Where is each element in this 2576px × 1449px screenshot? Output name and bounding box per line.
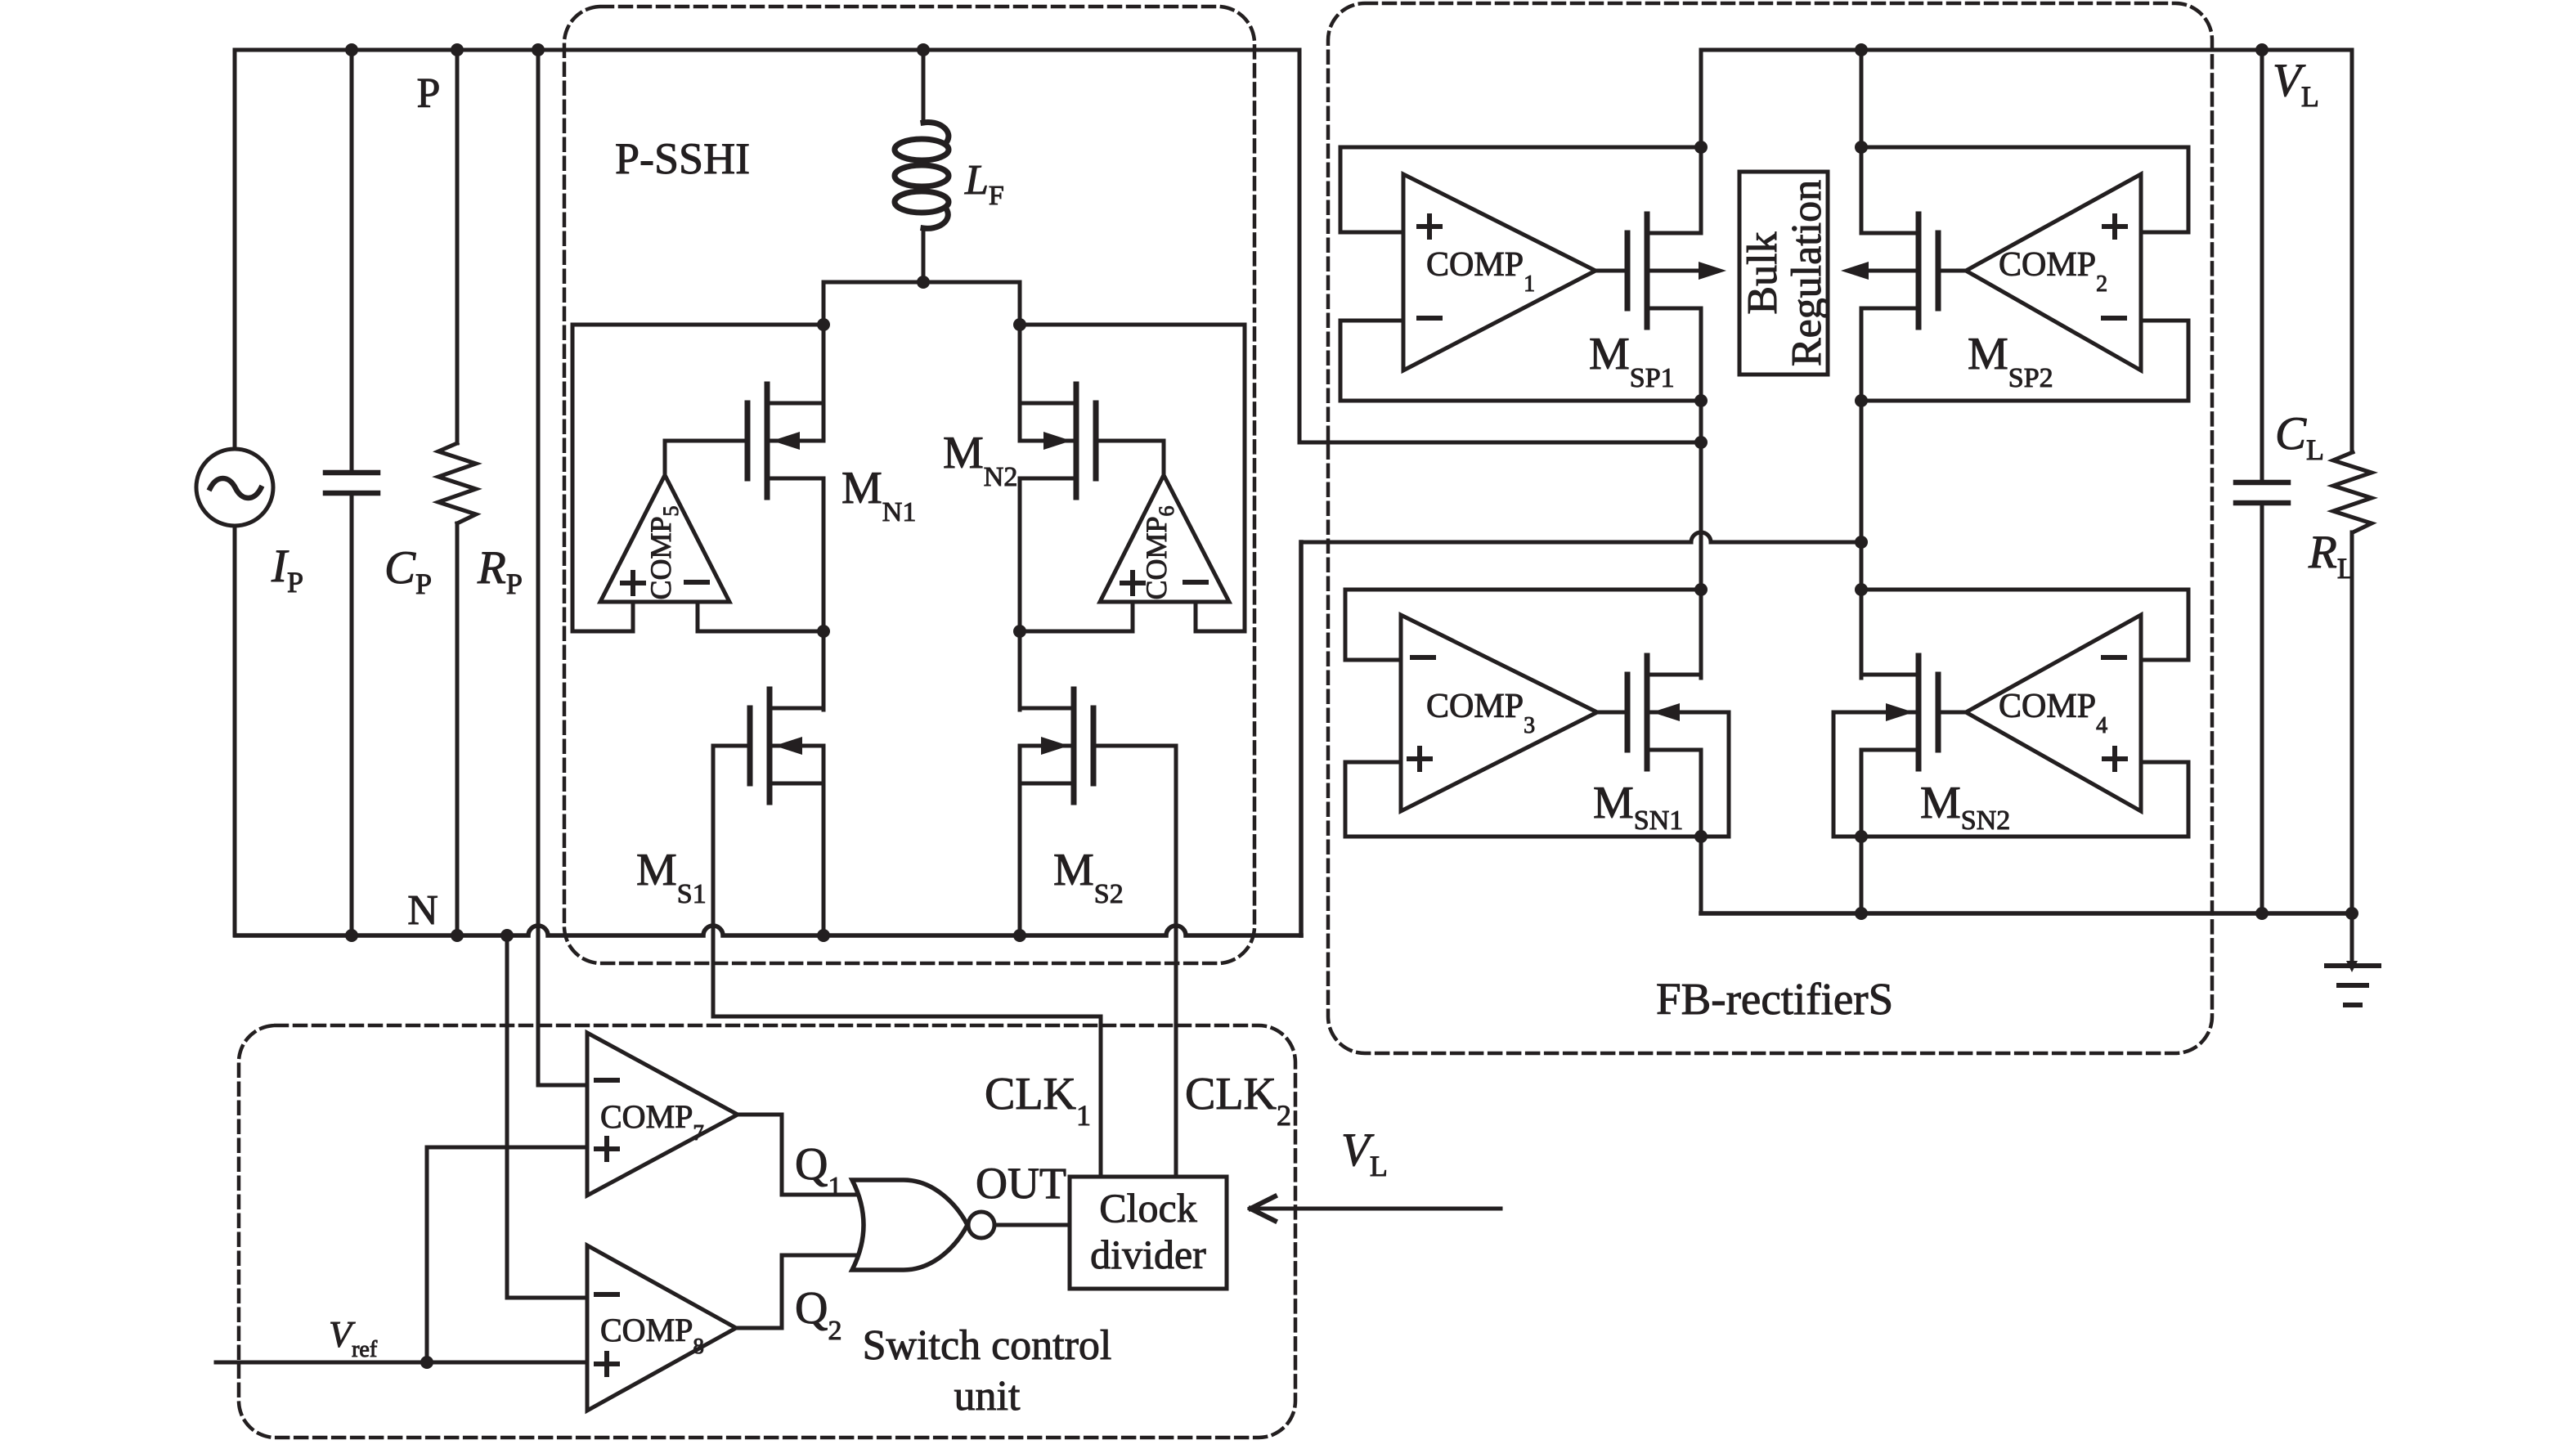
svg-text:Switch control: Switch control	[863, 1322, 1112, 1369]
svg-text:Clock: Clock	[1099, 1185, 1196, 1231]
svg-text:COMP5: COMP5	[644, 505, 683, 599]
svg-text:N: N	[407, 887, 438, 934]
svg-text:P-SSHI: P-SSHI	[615, 134, 750, 183]
svg-text:FB-rectifierS: FB-rectifierS	[1656, 974, 1893, 1024]
svg-text:OUT: OUT	[976, 1159, 1066, 1208]
svg-text:P: P	[417, 70, 441, 117]
svg-text:Regulation: Regulation	[1784, 180, 1830, 366]
svg-text:COMP6: COMP6	[1140, 505, 1178, 599]
svg-text:divider: divider	[1090, 1231, 1206, 1277]
svg-text:unit: unit	[954, 1373, 1021, 1420]
svg-text:Bulk: Bulk	[1739, 231, 1786, 314]
